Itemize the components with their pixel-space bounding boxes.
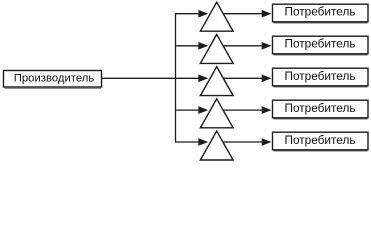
svg-text:Потребитель: Потребитель [285,69,356,83]
wire spine to triangle 1 [175,13,200,15]
wire spine to triangle 5 [175,141,200,143]
consumer box 2 Потребитель [273,36,369,54]
wire spine to triangle 4 [175,109,200,111]
consumer box 5 Потребитель [273,132,369,150]
arrowhead into consumer 3 [262,75,272,83]
consumer box 1 bottom shadow [274,22,368,24]
consumer box 1 Потребитель [273,4,369,22]
triangle 3 [200,67,233,96]
arrowhead into triangle 1 [198,10,208,18]
arrowhead into consumer 2 [262,42,272,50]
svg-text:Производитель: Производитель [14,72,95,84]
svg-text:Потребитель: Потребитель [285,133,356,147]
arrowhead into consumer 1 [262,10,272,18]
spine vertical wire [175,14,177,142]
triangle 5 [200,131,233,160]
producer box bottom shadow [5,87,102,89]
arrowhead into triangle 4 [198,106,208,114]
wire spine to triangle 2 [175,45,200,47]
consumer box 3 bottom shadow [274,86,368,88]
consumer box 5 bottom shadow [274,150,368,152]
arrowhead into triangle 2 [198,42,208,50]
wire triangle 4 to consumer 4 [223,109,265,111]
wire triangle 3 to consumer 3 [223,77,265,79]
producer box Производитель [4,71,102,88]
consumer box 4 Потребитель [273,100,369,118]
consumer box 3 Потребитель [273,68,369,86]
wire triangle 1 to consumer 1 [223,13,265,15]
triangle 2 [200,34,233,63]
wire producer to spine and into triangle 3 [102,77,203,79]
consumer box 2 bottom shadow [274,54,368,56]
arrowhead into consumer 5 [262,138,272,146]
arrowhead into triangle 5 [198,138,208,146]
svg-text:Потребитель: Потребитель [285,5,356,19]
triangle 1 [200,2,233,31]
wire triangle 5 to consumer 5 [223,141,265,143]
arrowhead into triangle 3 [198,75,208,83]
triangle 4 [200,99,233,128]
svg-text:Потребитель: Потребитель [285,37,356,51]
wire triangle 2 to consumer 2 [223,45,265,47]
arrowhead into consumer 4 [262,106,272,114]
consumer box 4 bottom shadow [274,118,368,120]
svg-text:Потребитель: Потребитель [285,101,356,115]
